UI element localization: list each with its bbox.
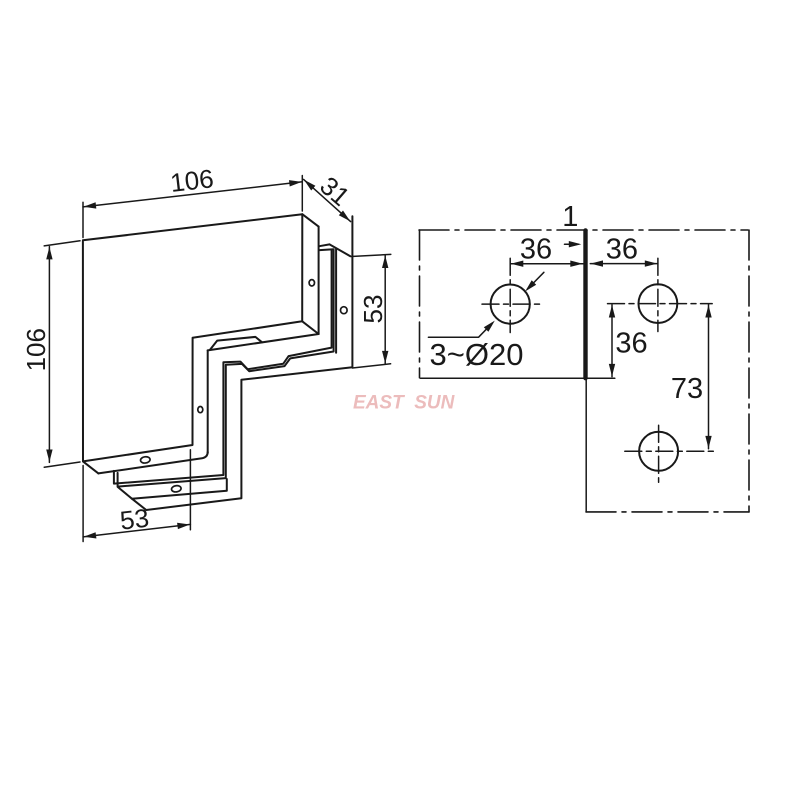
front plate top-right depth edge: [302, 214, 318, 226]
screw hole on column side face: [198, 407, 203, 413]
hole C3 center vertical: [658, 425, 660, 482]
svg-text:53: 53: [358, 295, 388, 324]
hole C3: [639, 432, 678, 471]
svg-text:36: 36: [606, 234, 638, 266]
transom glass bottom edge: [421, 377, 615, 379]
dim 36 mid arrow bottom: [609, 364, 615, 377]
front plate face outline: [83, 214, 302, 461]
front plate back edge of column: [207, 350, 209, 453]
dim 31 line: [304, 179, 351, 221]
back plate outline: [132, 216, 353, 510]
dim 106 top extension right: [301, 176, 303, 212]
dim 106 left extension top: [44, 241, 80, 246]
svg-text:73: 73: [671, 373, 703, 405]
dim 1 arrow line: [565, 243, 579, 245]
dim 31 arrow upper: [304, 180, 315, 191]
dim 73 line: [708, 305, 710, 449]
dim 106 top extension left: [82, 202, 84, 237]
dim 36 left line: [510, 263, 583, 265]
front plate bottom strip edge: [98, 452, 207, 473]
hole C1 center horizontal: [482, 303, 541, 305]
dim 53 right arrow top: [382, 256, 388, 269]
dim 36 left arrow left: [511, 261, 524, 267]
hole on back plate face: [171, 485, 181, 492]
glass top depth edge: [330, 244, 351, 256]
glass joint thick line: [583, 230, 587, 378]
dim 53 right extension bottom: [352, 364, 390, 368]
hole C1 center vertical: [509, 258, 511, 332]
hole C2: [639, 284, 678, 323]
glass border chain right: [748, 230, 750, 512]
svg-text:106: 106: [21, 328, 51, 371]
svg-text:53: 53: [118, 503, 150, 536]
dim 106 top arrow left: [84, 202, 97, 208]
svg-text:106: 106: [169, 163, 216, 198]
label 3-O20 leader: [428, 323, 492, 337]
dim 1 arrowhead: [569, 241, 582, 247]
hole C2 center horizontal: [608, 303, 713, 305]
glass tab edge: [210, 337, 262, 350]
glass front outline: [114, 250, 332, 484]
dim 53 right arrow bottom: [382, 351, 388, 364]
hole on front bottom strip: [140, 456, 150, 463]
glass border chain bottom: [586, 511, 749, 513]
screw hole on back plate side face: [341, 307, 348, 314]
dim 53 bottom arrow right: [177, 523, 190, 529]
dim 53 bottom line: [83, 524, 190, 537]
label 3-O20 second arrowhead: [525, 280, 536, 291]
dim 36 left arrow right: [570, 261, 583, 267]
front plate bottom-left depth edge: [83, 461, 98, 473]
door glass edge: [585, 378, 587, 512]
svg-text:3~Ø20: 3~Ø20: [430, 337, 524, 372]
front plate back bottom edge of arm: [208, 334, 319, 350]
label 3-O20 leader arrowhead: [484, 321, 495, 332]
dim 36 mid line: [611, 305, 613, 377]
svg-text:EAST SUN: EAST SUN: [353, 392, 456, 413]
dim 106 left arrow top: [46, 247, 52, 260]
back plate top edge extension: [351, 254, 391, 256]
glass top edge inner: [320, 248, 334, 251]
front plate arm corner depth edge: [302, 321, 318, 334]
screw hole on arm side face: [309, 280, 314, 286]
label 3-O20 second arrow line: [528, 272, 544, 289]
front plate back right edge: [318, 227, 320, 334]
dim 36 right arrow left: [591, 260, 604, 266]
dim 53 bottom extension left: [82, 466, 84, 542]
hole C3 center horizontal: [625, 450, 714, 452]
dim 106 left extension bottom: [44, 462, 80, 467]
dim 53 bottom arrow left: [84, 532, 97, 538]
back plate front bottom edge: [118, 479, 227, 499]
dim 106 top line: [83, 182, 302, 207]
svg-text:36: 36: [520, 234, 552, 266]
svg-text:1: 1: [562, 201, 578, 233]
dim 36 right arrow right: [645, 260, 658, 266]
dim 73 arrow top: [705, 305, 711, 318]
dim 73 arrow bottom: [705, 436, 711, 449]
dim 31 arrow lower: [339, 211, 350, 222]
dim 53 bottom extension right: [189, 450, 191, 530]
dim 106 top arrow right: [289, 180, 302, 186]
dim 36 mid arrow top: [609, 305, 615, 318]
svg-text:36: 36: [615, 327, 647, 359]
glass back outline: [118, 250, 334, 487]
dim 106 left line: [48, 247, 50, 463]
dim 53 right line: [384, 255, 386, 364]
glass border chain top: [419, 229, 748, 231]
dim 106 left arrow bottom: [46, 450, 52, 463]
dim 36 right line: [590, 263, 657, 265]
hole C1: [491, 285, 530, 324]
glass top edge: [319, 244, 329, 246]
glass inner vertical edge: [335, 249, 337, 353]
hole C2 center vertical: [657, 258, 659, 331]
glass border chain left: [419, 230, 421, 378]
